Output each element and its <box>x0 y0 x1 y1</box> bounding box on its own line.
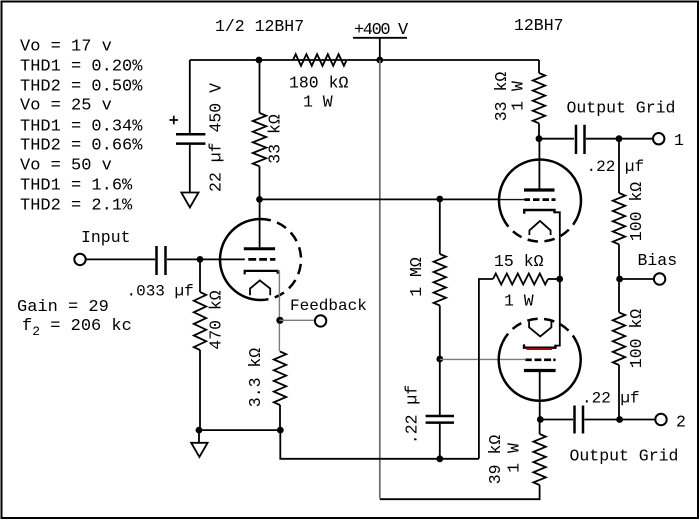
svg-text:33 kΩ: 33 kΩ <box>266 114 285 164</box>
tube U2 cathode bar <box>524 210 554 214</box>
svg-text:470 kΩ: 470 kΩ <box>207 290 226 350</box>
wire: 1M bottom lead <box>439 306 441 416</box>
svg-text:1 W: 1 W <box>505 443 524 473</box>
wire: bias node to 100k lower <box>618 279 620 312</box>
junction: U2 grid / 1M node <box>436 196 443 203</box>
wire: cap C1 to ground <box>189 144 191 193</box>
svg-text:12BH7: 12BH7 <box>514 16 564 35</box>
capacitor C1 22 µf 450 V plus sign <box>170 116 179 124</box>
svg-text:THD2 = 2.1%: THD2 = 2.1% <box>20 197 133 216</box>
resistor R4 3.3 kΩ (U1 cathode) <box>274 352 286 406</box>
svg-text:Vo = 50 v: Vo = 50 v <box>20 157 112 176</box>
tube U3 plate lead <box>539 371 541 420</box>
svg-text:Input: Input <box>81 228 131 247</box>
svg-text:180 kΩ: 180 kΩ <box>289 74 349 93</box>
junction: U3 plate / output 2 node <box>537 416 544 423</box>
wire: U1 plate to U2 grid <box>259 198 500 200</box>
ground symbol (filter cap) <box>181 193 198 208</box>
wire: 15k left lead down to return rail <box>479 279 493 459</box>
wire: cathode node down to U3 cathode <box>555 279 559 346</box>
wire: B+ vertical rail down right side (thin/gray) <box>379 60 381 498</box>
svg-text:THD1 = 1.6%: THD1 = 1.6% <box>20 177 133 196</box>
svg-text:Gain = 29: Gain = 29 <box>17 298 109 317</box>
resistor R8 100 kΩ (upper bias divider) <box>613 193 625 244</box>
wire: 100k upper to bias node <box>618 244 620 279</box>
junction: U3 grid node <box>436 356 443 363</box>
wire: +400V drop to top rail <box>379 38 381 60</box>
resistor R5 1 MΩ <box>434 254 446 306</box>
tube U1 cathode bar <box>245 271 278 275</box>
wire: 33k top lead <box>259 60 261 113</box>
svg-text:2: 2 <box>676 413 686 432</box>
capacitor C3 .22 µf (output 1) plates <box>576 125 585 154</box>
tube U3 heater (inverted) <box>529 322 551 337</box>
tube U3 grid (dashed) <box>525 358 555 361</box>
junction: bias node <box>616 276 623 283</box>
ground symbol (input stage) <box>191 443 207 457</box>
junction: grid node / 470k <box>197 256 204 263</box>
junction: output 2 / 100k divider bottom <box>616 416 623 423</box>
wire: 100k lower to output 2 node <box>618 365 620 420</box>
junction: ground rail left <box>196 427 203 434</box>
wire: left branch down to filter cap <box>189 60 191 134</box>
svg-text:100 kΩ: 100 kΩ <box>627 309 646 369</box>
tube U1 envelope dashed arc (right half, shared envelope) <box>261 219 302 300</box>
wire: 100k upper top lead <box>618 139 620 193</box>
output terminal 2 circle <box>655 414 666 425</box>
tube U3 cathode bar <box>524 344 555 347</box>
capacitor C2 .033 µf plates <box>157 246 166 275</box>
wire (thin): U1 cathode lead down <box>278 271 280 352</box>
tube U2 grid (dashed) <box>525 198 556 201</box>
annotation: distortion measurements text block <box>20 38 143 216</box>
resistor R1 180 kΩ 1 W (coupling to B+) <box>293 54 347 66</box>
tube U1 grid (dashed) <box>248 258 275 261</box>
junction: cathode node at 15k <box>556 276 563 283</box>
wire: ground rail return to 15k <box>280 430 479 459</box>
wire: C4 bottom to return rail <box>439 423 441 459</box>
tube U1 plate lead <box>259 199 261 247</box>
wire: top rail drop to 33k 1W <box>538 60 540 73</box>
junction: U2 plate node <box>536 135 543 142</box>
wire: U3 plate node to output cap C5 <box>540 419 573 421</box>
tube U3 envelope dashed arc (top, shared envelope) <box>503 319 577 343</box>
wire: 15k right lead <box>548 278 560 280</box>
wire: 33k 1W to U2 plate node <box>538 123 540 138</box>
tube U2 plate lead <box>538 139 540 189</box>
junction: top rail / 33k plate load <box>256 57 263 64</box>
wire: input to coupling cap <box>86 258 155 260</box>
resistor R10 39 kΩ 1 W <box>533 434 545 485</box>
wire: 3.3k to ground rail <box>279 405 281 430</box>
input terminal circle <box>74 254 85 265</box>
capacitor C4 .22 µf (grid bypass) plates <box>426 416 454 423</box>
junction: C4 on return rail <box>436 455 443 462</box>
wire: stub to ground symbol <box>198 430 200 443</box>
svg-text:1/2 12BH7: 1/2 12BH7 <box>215 17 304 36</box>
svg-text:1 W: 1 W <box>509 81 528 111</box>
junction: feedback node <box>276 317 283 324</box>
tube U2 envelope solid arc <box>499 160 581 224</box>
feedback terminal circle <box>315 315 326 326</box>
tube U2 envelope dashed arc (bottom) <box>503 218 574 242</box>
tube U2 heater <box>529 221 550 235</box>
tube U3 envelope solid arc (bottom) <box>499 343 581 401</box>
wire: bottom rail to 39k <box>380 485 540 499</box>
red mark under U3 cathode <box>526 348 552 350</box>
svg-text:THD1 = 0.34%: THD1 = 0.34% <box>20 118 143 137</box>
svg-text:15 kΩ: 15 kΩ <box>494 252 544 271</box>
svg-text:THD2 = 0.66%: THD2 = 0.66% <box>20 137 143 156</box>
resistor R9 100 kΩ (lower bias divider) <box>613 312 625 365</box>
svg-text:39 kΩ: 39 kΩ <box>486 435 505 485</box>
tube U1 plate bar <box>244 247 275 250</box>
svg-text:Output Grid: Output Grid <box>570 447 679 466</box>
junction: ground rail right <box>277 427 284 434</box>
svg-text:1 W: 1 W <box>303 93 333 112</box>
wire (thin): feedback stub <box>279 319 315 321</box>
svg-text:.22 µf: .22 µf <box>582 390 640 408</box>
power net +400 V underline <box>353 37 407 39</box>
svg-text:.033 µf: .033 µf <box>127 283 194 301</box>
wire: U2 cathode lead down to cathode node <box>555 212 560 279</box>
svg-text:Vo = 25 v: Vo = 25 v <box>20 97 112 116</box>
junction: output 1 / 100k divider top <box>616 135 623 142</box>
svg-text:.22 µf: .22 µf <box>587 158 645 176</box>
junction: U1 plate node <box>256 196 263 203</box>
junction: B+ rail at +400V <box>376 57 383 64</box>
wire: grid node down to 470k <box>199 259 201 292</box>
wire: ground rail (470k to 3.3k) <box>199 429 280 431</box>
wire: coupling cap to U1 grid <box>167 258 245 260</box>
tube U1 envelope solid arc (left half) <box>220 219 261 300</box>
wire: bias stub <box>620 278 654 280</box>
wire: 470k to ground rail <box>199 350 201 430</box>
svg-text:Bias: Bias <box>638 251 678 270</box>
wire: U2 plate node to output cap C3 <box>539 138 574 140</box>
bias terminal circle <box>654 273 665 284</box>
svg-text:Feedback: Feedback <box>290 297 367 315</box>
svg-text:THD2 = 0.50%: THD2 = 0.50% <box>20 78 143 97</box>
output terminal 1 circle <box>653 133 664 144</box>
svg-text:1 W: 1 W <box>504 292 534 311</box>
resistor R3 470 kΩ (grid leak) <box>194 292 206 350</box>
tube U3 plate bar <box>524 369 556 372</box>
wire: 1M top lead <box>439 199 441 254</box>
wire: C5 to output terminal 2 <box>585 419 656 421</box>
wire: 33k bottom lead to plate node <box>259 166 261 199</box>
svg-text:Output Grid: Output Grid <box>567 99 676 118</box>
svg-text:1 MΩ: 1 MΩ <box>407 257 426 297</box>
wire: top B+ rail <box>190 59 539 61</box>
wire (thin): U3 grid lead <box>440 358 525 360</box>
svg-text:1: 1 <box>674 131 684 150</box>
tube U1 heater <box>250 280 270 295</box>
svg-text:22 µf 450 V: 22 µf 450 V <box>207 83 226 192</box>
svg-text:100 kΩ: 100 kΩ <box>627 182 646 242</box>
capacitor C1 22 µf 450 V plates <box>176 134 205 143</box>
resistor R7 33 kΩ 1 W (U2 plate load) <box>533 73 545 123</box>
wire: U3 plate node to 39k <box>539 420 541 435</box>
resistor R6 15 kΩ 1 W (cathode) <box>493 274 548 285</box>
capacitor C5 .22 µf (output 2) plates <box>575 406 584 434</box>
svg-text:Vo = 17 v: Vo = 17 v <box>20 38 112 57</box>
tube U2 plate bar <box>524 188 555 191</box>
svg-text:3.3 kΩ: 3.3 kΩ <box>246 348 265 408</box>
svg-text:.22 µf: .22 µf <box>403 385 422 444</box>
wire: C3 to output terminal 1 <box>586 138 653 140</box>
svg-text:THD1 = 0.20%: THD1 = 0.20% <box>20 58 143 77</box>
resistor R2 33 kΩ (U1 plate load) <box>253 113 266 166</box>
